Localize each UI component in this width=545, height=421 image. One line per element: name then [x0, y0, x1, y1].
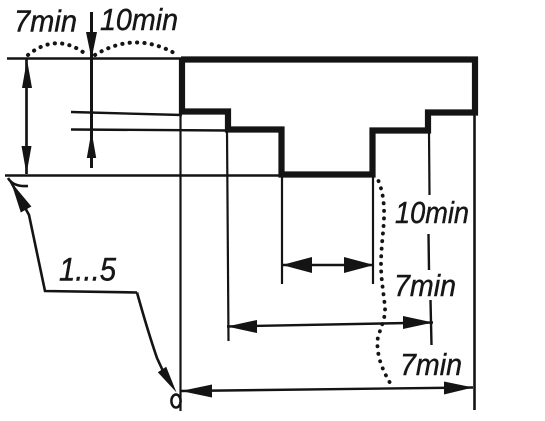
gap leader line lower: [137, 293, 163, 372]
bottom surface line: [5, 174, 282, 176]
depth arrow up: [87, 131, 96, 158]
extension line left step: [227, 130, 229, 341]
groove width dimension line: [282, 264, 374, 266]
step width arrow left: [227, 320, 257, 333]
extension line right step segment 2: [427, 234, 430, 270]
dotted weld bead arc right: [95, 42, 176, 55]
step width arrow right: [403, 316, 433, 329]
left thickness dimension line: [25, 59, 28, 174]
gap leader line upper: [11, 182, 137, 293]
extension line right step segment 1: [428, 132, 431, 195]
svg-text:1...5: 1...5: [59, 252, 116, 288]
top surface line: [7, 57, 182, 59]
dotted weld bead arc left: [28, 43, 87, 55]
depth arrow down: [86, 32, 97, 59]
overall width arrow left: [181, 385, 212, 398]
groove width arrow left: [282, 257, 312, 273]
groove width arrow right: [344, 257, 374, 273]
svg-text:10min: 10min: [100, 2, 178, 37]
workpiece thick outline: [181, 60, 475, 175]
upper hidden edge line: [71, 112, 182, 115]
overall width arrow right: [444, 382, 473, 395]
extension line groove right: [372, 177, 374, 284]
extension line right edge: [473, 113, 476, 410]
gap leader arrow upper: [11, 182, 31, 213]
left dimension arrow up: [22, 60, 32, 89]
extension line groove left: [281, 177, 283, 284]
lower hidden edge line: [71, 130, 228, 131]
step width dimension line: [227, 323, 433, 327]
surface line end hook: [8, 178, 28, 186]
svg-text:7min: 7min: [400, 347, 462, 382]
overall width dimension line: [181, 388, 473, 392]
dotted weld contour right side: [377, 181, 392, 386]
gap leader arrow lower: [158, 367, 177, 393]
left dimension arrow down: [22, 146, 32, 174]
extension line right step segment 3: [431, 300, 432, 345]
svg-text:7min: 7min: [394, 268, 456, 303]
svg-text:7min: 7min: [14, 4, 77, 39]
extension line left edge: [179, 113, 181, 411]
gap root circle: [171, 395, 180, 408]
center depth dimension line: [90, 12, 93, 168]
svg-text:10min: 10min: [395, 195, 469, 230]
